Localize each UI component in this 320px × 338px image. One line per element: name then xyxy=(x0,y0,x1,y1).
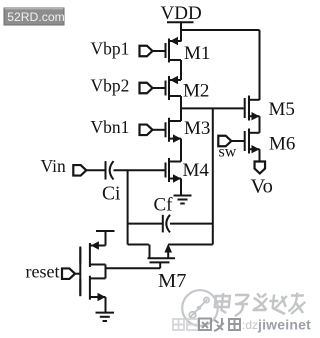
svg-text:M3: M3 xyxy=(184,118,210,139)
svg-text:M5: M5 xyxy=(269,99,295,120)
svg-text:sw: sw xyxy=(219,144,237,161)
svg-text:Vin: Vin xyxy=(41,156,66,176)
svg-text:Vbn1: Vbn1 xyxy=(91,117,130,137)
svg-text:M4: M4 xyxy=(183,160,210,181)
svg-text:VDD: VDD xyxy=(161,3,202,24)
svg-text:52RD.com: 52RD.com xyxy=(7,10,65,24)
svg-text:M2: M2 xyxy=(183,81,209,102)
svg-text:Vo: Vo xyxy=(251,176,273,198)
svg-text:M6: M6 xyxy=(269,134,295,155)
svg-text:M7: M7 xyxy=(158,270,186,292)
svg-text:Vbp2: Vbp2 xyxy=(91,76,130,96)
svg-text:Ci: Ci xyxy=(102,184,121,205)
svg-text:reset: reset xyxy=(26,262,60,282)
svg-text:M1: M1 xyxy=(184,43,210,64)
svg-text:Vbp1: Vbp1 xyxy=(91,39,130,59)
svg-text:jiweinet: jiweinet xyxy=(257,317,311,333)
svg-text::dz: :dz xyxy=(242,318,258,332)
svg-text:Cf: Cf xyxy=(154,195,174,216)
